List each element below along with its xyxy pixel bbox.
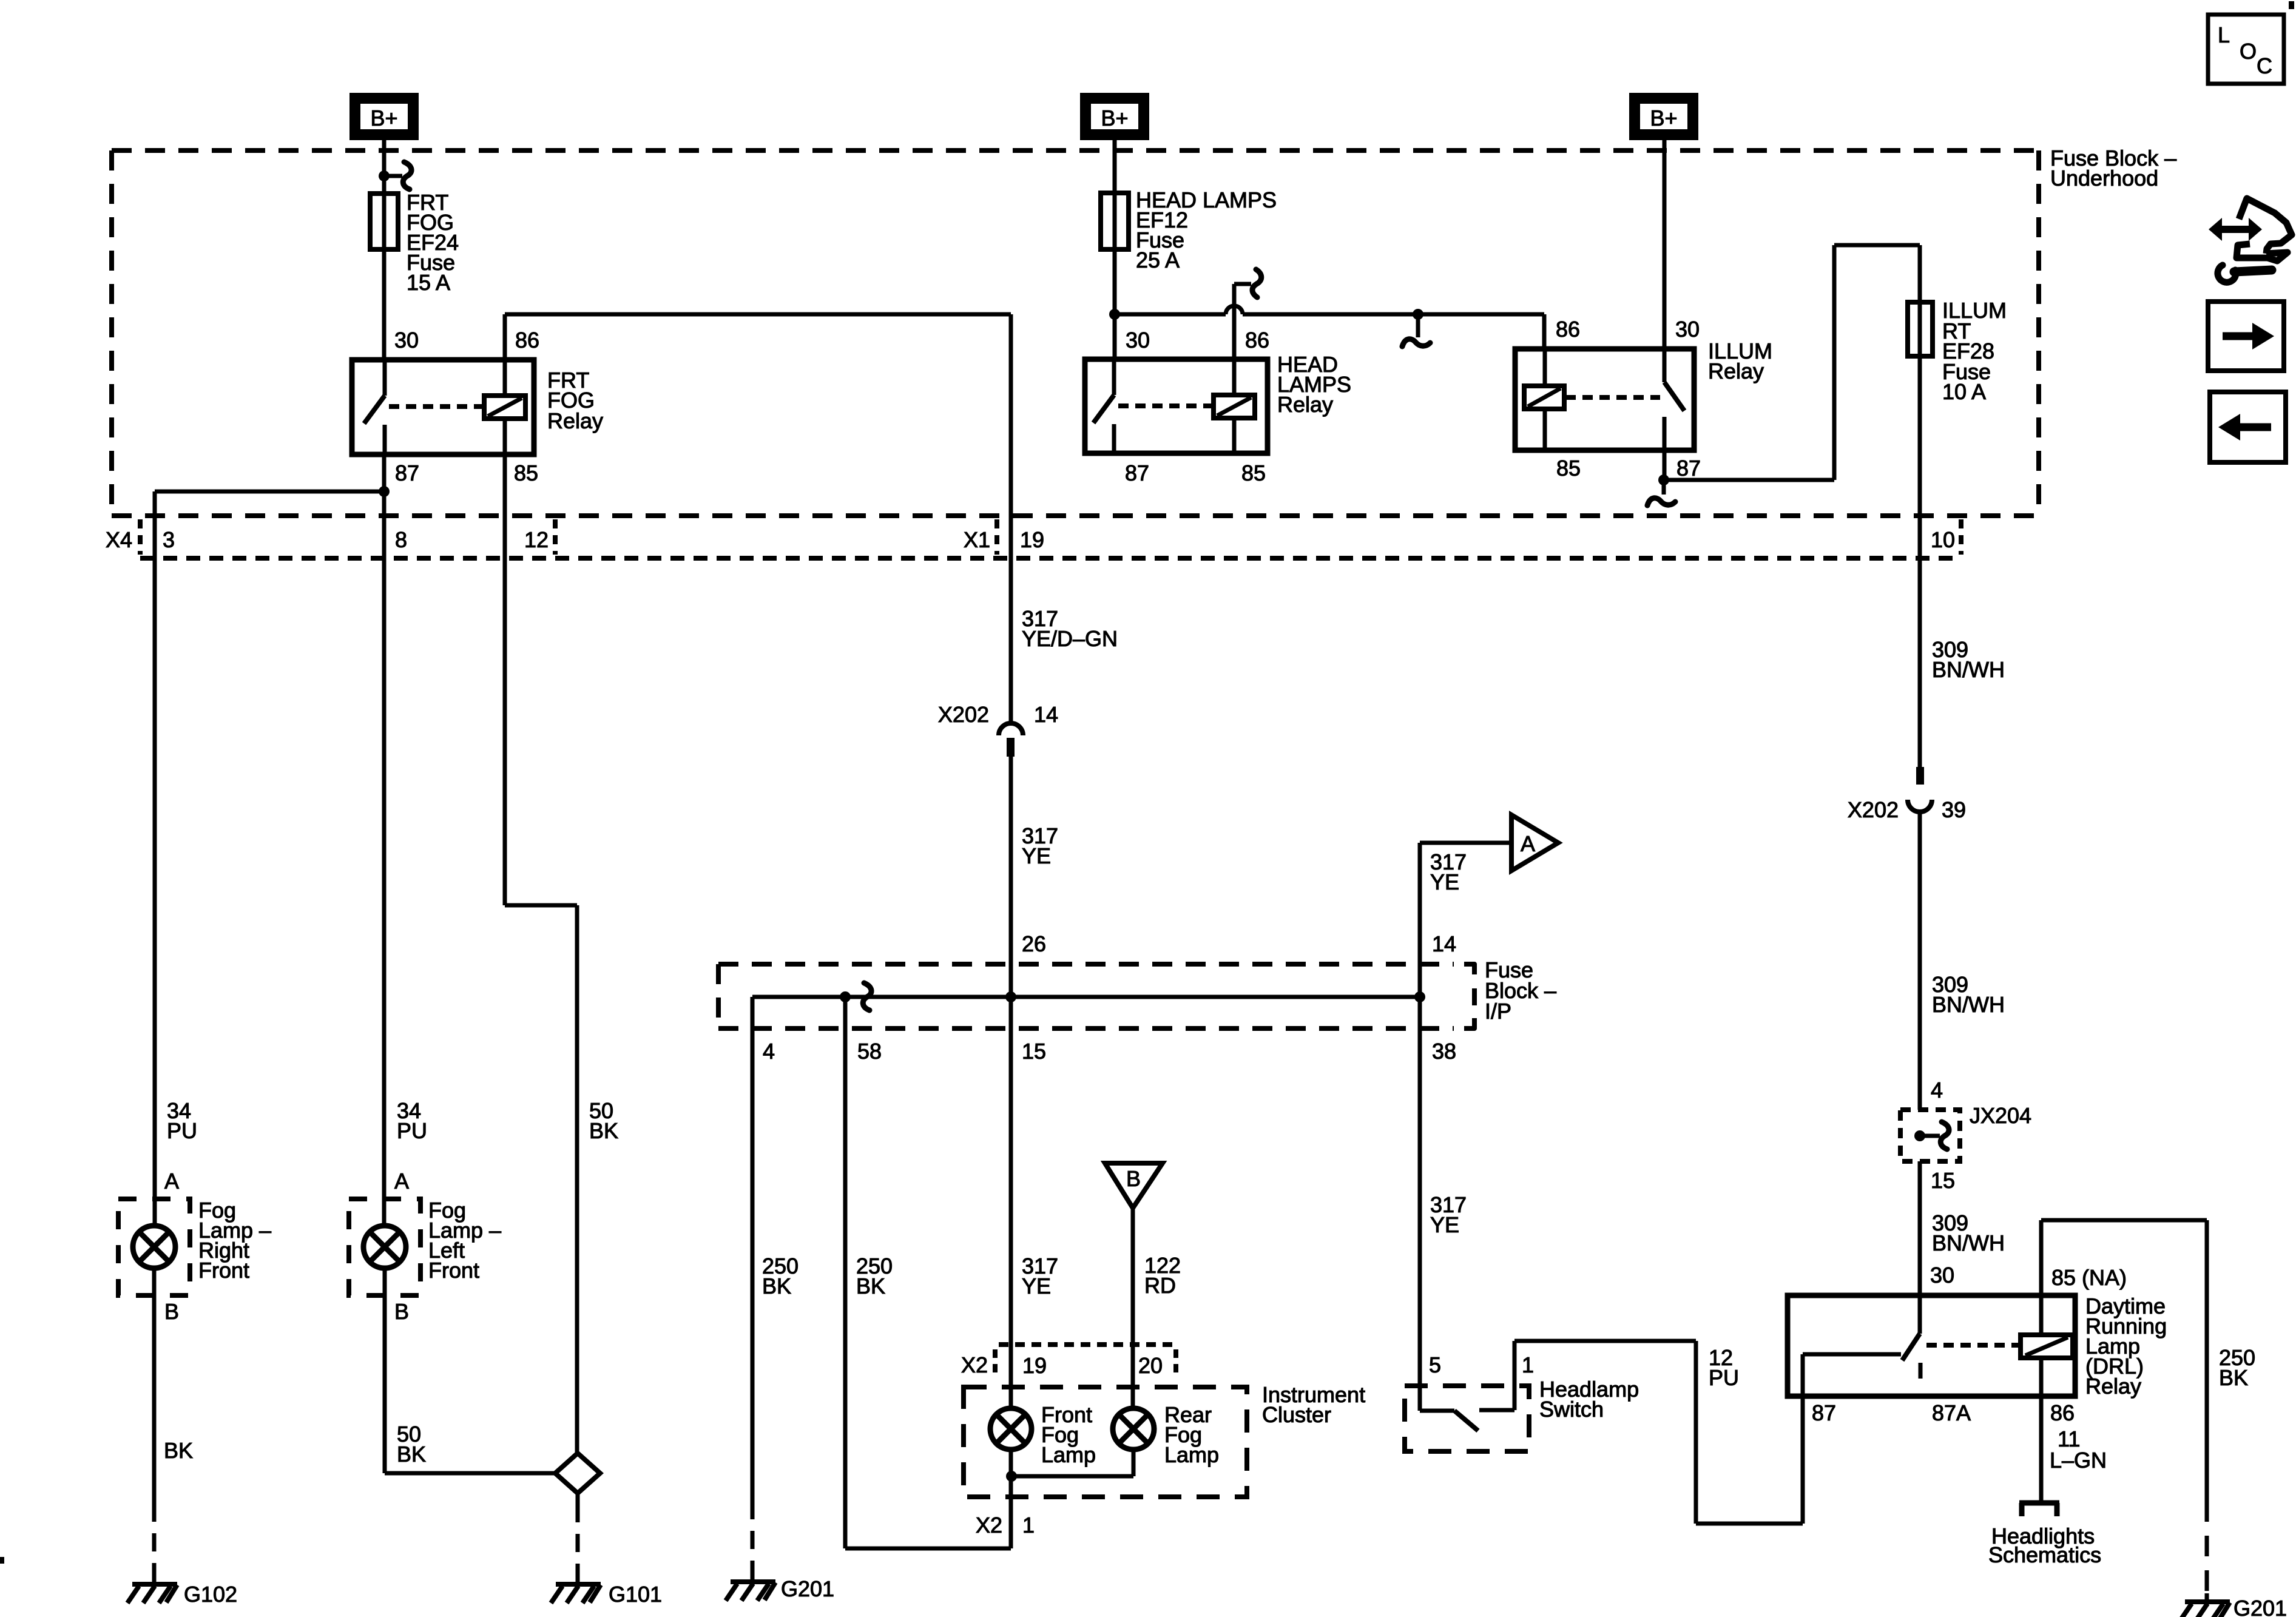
svg-text:58: 58 [857, 1039, 882, 1064]
wire B+3 to ILLUM relay 30 [1663, 140, 1667, 349]
svg-text:BK: BK [164, 1438, 193, 1463]
fog lamp right front bulb [133, 1226, 175, 1268]
arrow-right legend box [2208, 302, 2284, 371]
instrument cluster dashed box [964, 1387, 1247, 1497]
svg-text:86: 86 [2050, 1400, 2075, 1425]
battery feed B+ 1 [354, 97, 414, 136]
pin 1 label [1522, 1352, 1534, 1377]
pigtail below bus splice [1402, 314, 1430, 346]
svg-text:Cluster: Cluster [1262, 1402, 1331, 1427]
svg-text:14: 14 [1034, 702, 1058, 727]
page mark top-right [2289, 1, 2294, 9]
svg-text:Front: Front [198, 1258, 249, 1283]
rear fog lamp label [1164, 1402, 1219, 1467]
svg-text:I/P: I/P [1485, 999, 1511, 1024]
svg-text:85: 85 [1241, 461, 1266, 485]
svg-text:20: 20 [1138, 1353, 1163, 1378]
fog lamp left front bulb [363, 1226, 406, 1268]
fuse block IP label [1485, 957, 1556, 1024]
pigtail take-off at EF24 [384, 162, 411, 189]
LOC legend box [2208, 15, 2284, 84]
connector X2 row dotted line [999, 1342, 1177, 1347]
wire triangle B to rear fog lamp [1131, 1208, 1135, 1408]
svg-text:PU: PU [397, 1118, 427, 1143]
svg-text:BK: BK [397, 1442, 426, 1467]
relay DRL label [2085, 1294, 2167, 1399]
pin 10 label [1931, 527, 1955, 552]
connector X202-14 labels [938, 702, 1058, 727]
connector X2 bracket dashes [995, 1349, 1176, 1377]
relay FRT FOG pin labels [394, 328, 539, 485]
relay ILLUM label [1708, 339, 1772, 383]
svg-text:15: 15 [1022, 1039, 1046, 1064]
relay DRL box [1788, 1295, 2075, 1396]
svg-text:86: 86 [515, 328, 539, 353]
pin 5 label [1429, 1352, 1441, 1377]
junction JX204 splice [1914, 1130, 1925, 1141]
svg-text:Lamp: Lamp [1164, 1442, 1219, 1467]
pin 8 label [395, 527, 407, 552]
svg-text:38: 38 [1432, 1039, 1456, 1064]
svg-text:25 A: 25 A [1136, 248, 1180, 272]
pin A label left-front [394, 1169, 409, 1193]
wire to right front fog lamp [155, 491, 384, 1226]
svg-text:30: 30 [394, 328, 419, 353]
pin 26 label [1022, 931, 1046, 956]
fuse EF12 HEAD LAMPS 25A [1101, 193, 1129, 249]
svg-text:A: A [394, 1169, 409, 1193]
label 250 BK right [2219, 1345, 2255, 1390]
relay HEAD LAMPS switch [1093, 359, 1114, 453]
wire JX204 to DRL relay 30 [1918, 1161, 1922, 1295]
label 34 PU left-front [397, 1098, 427, 1143]
svg-text:X202: X202 [938, 702, 989, 727]
svg-text:Relay: Relay [547, 408, 603, 433]
junction EF12 bus [1109, 309, 1120, 320]
svg-text:B: B [394, 1299, 409, 1324]
relay DRL coil [2021, 1335, 2073, 1358]
svg-text:X2: X2 [961, 1352, 988, 1377]
relay DRL actuating link [1926, 1343, 2019, 1348]
wire to triangle A [1420, 841, 1511, 845]
svg-text:30: 30 [1675, 317, 1700, 342]
relay ILLUM actuating link [1565, 395, 1660, 400]
relay FRT FOG label [547, 368, 603, 433]
svg-text:PU: PU [167, 1118, 197, 1143]
svg-text:BK: BK [762, 1274, 791, 1298]
splice junction at EF24 [379, 170, 390, 181]
pin 3 label [163, 527, 175, 552]
ground G102 label [184, 1582, 237, 1607]
relay HEAD LAMPS coil [1214, 395, 1255, 418]
wire X202-39 to JX204 [1918, 812, 1922, 1110]
svg-text:26: 26 [1022, 931, 1046, 956]
svg-text:15: 15 [1931, 1168, 1955, 1193]
junction IP bus at 38 [1414, 991, 1425, 1002]
fuse EF28 label [1942, 298, 2007, 404]
junction IP bus at 58 [840, 991, 851, 1002]
pin 38 label [1432, 1039, 1456, 1064]
svg-text:B+: B+ [1101, 106, 1128, 130]
relay FRT FOG coil [484, 396, 525, 419]
label 317 YE (pin 14) [1430, 849, 1467, 894]
wire ILLUM 87 to EF28 fuse [1664, 245, 1920, 480]
ground G201 right [2180, 1593, 2230, 1617]
headlamp switch contacts [1420, 1410, 1514, 1431]
off-page bracket headlights [2019, 1503, 2059, 1516]
svg-text:19: 19 [1020, 527, 1044, 552]
svg-text:Relay: Relay [1708, 359, 1764, 383]
svg-text:A: A [164, 1169, 179, 1193]
label 309 BN/WH middle [1932, 972, 2005, 1017]
svg-text:G201: G201 [2234, 1596, 2287, 1617]
svg-text:BK: BK [2219, 1365, 2248, 1390]
wire pin58 250 BK to X2-1 [845, 997, 1011, 1548]
label 250 BK first [762, 1254, 799, 1298]
relay HEAD LAMPS pin labels [1125, 328, 1269, 485]
connector X4 label [106, 527, 132, 552]
wire FRT FOG 85 to 50 BK [505, 454, 577, 1453]
junction ILLUM 87 splice [1658, 474, 1669, 485]
wire diamond to G101 [576, 1493, 580, 1578]
label 317 YE (upper) [1022, 823, 1058, 868]
svg-text:BK: BK [589, 1118, 618, 1143]
ground G102 [127, 1576, 177, 1603]
svg-text:12: 12 [524, 527, 549, 552]
wire pin38 to headlamp switch 5 [1418, 843, 1422, 1411]
svg-text:L–GN: L–GN [2050, 1448, 2107, 1473]
relay ILLUM coil wires [1543, 349, 1547, 450]
pin 19 label (X2) [1022, 1353, 1047, 1378]
svg-text:B+: B+ [1650, 106, 1677, 130]
fuse block underhood label [2050, 146, 2176, 191]
junction bus splice [1413, 309, 1423, 320]
svg-text:BK: BK [856, 1274, 885, 1298]
headlamp switch box [1405, 1386, 1529, 1451]
ground G101 [551, 1576, 601, 1603]
svg-text:YE: YE [1430, 1212, 1459, 1237]
svg-text:Relay: Relay [2085, 1374, 2141, 1399]
pin 12 label [524, 527, 549, 552]
connector X2 label [961, 1352, 988, 1377]
relay FRT FOG coil wires [503, 360, 507, 454]
fuse block underhood dashed border [112, 150, 2039, 516]
svg-text:4: 4 [1931, 1078, 1943, 1102]
svg-text:RD: RD [1144, 1273, 1176, 1298]
relay HEAD LAMPS box [1085, 359, 1268, 453]
svg-text:X1: X1 [964, 527, 990, 552]
off-page triangle A [1511, 815, 1558, 871]
svg-text:YE: YE [1430, 869, 1459, 894]
pin 15 label [1931, 1168, 1955, 1193]
svg-text:(NA): (NA) [2082, 1265, 2127, 1290]
ground G101 label [609, 1582, 662, 1607]
svg-text:87: 87 [1676, 456, 1701, 481]
svg-text:19: 19 [1022, 1353, 1047, 1378]
svg-text:86: 86 [1556, 317, 1580, 342]
relay ILLUM box [1515, 349, 1694, 450]
svg-text:Switch: Switch [1539, 1397, 1604, 1422]
label 34 PU right-front [167, 1098, 197, 1143]
wire pin4 250 BK to G201 [751, 1028, 755, 1501]
wire rear fog to junction [1011, 1450, 1133, 1476]
fuse EF12 label [1136, 187, 1277, 272]
splice diamond S-connector [555, 1453, 600, 1493]
fuse EF24 FRT FOG 15A [370, 194, 398, 249]
wire X202-14 to IP bus [1009, 757, 1013, 1408]
pigtail below ILLUM 87 [1647, 480, 1675, 505]
label 309 BN/WH lower [1932, 1210, 2005, 1255]
svg-text:PU: PU [1709, 1365, 1739, 1390]
relay FRT FOG actuating link [389, 404, 483, 409]
pin A label right-front [164, 1169, 179, 1193]
IP internal bus [752, 964, 1420, 1028]
svg-text:Relay: Relay [1277, 392, 1333, 417]
indicator rear fog lamp [1113, 1408, 1154, 1450]
wire B+2 to HEAD LAMPS relay 30 [1113, 140, 1117, 360]
svg-text:B: B [164, 1299, 179, 1324]
dashed wire to G201 left [751, 1501, 755, 1578]
label 11 L-GN [2050, 1426, 2107, 1473]
instrument cluster label [1262, 1382, 1365, 1427]
svg-text:87: 87 [1125, 461, 1149, 485]
off-page triangle B [1105, 1163, 1163, 1208]
svg-text:Schematics: Schematics [1988, 1542, 2101, 1567]
pin 14 label [1432, 931, 1456, 956]
svg-text:87A: 87A [1932, 1400, 1971, 1425]
wire FRT FOG 86 to X1-19 bus [505, 314, 1011, 723]
svg-text:Lamp: Lamp [1041, 1442, 1096, 1467]
svg-text:YE: YE [1022, 1274, 1051, 1298]
connector X202 pin 39 [1908, 767, 1932, 812]
label 50 BK (relay 85 wire) [589, 1098, 618, 1143]
relay ILLUM pin labels [1556, 317, 1701, 481]
label 250 BK second [856, 1254, 893, 1298]
connector row X4/X1 bottom dashed line [140, 556, 1961, 561]
fuse EF28 ILLUM RT 10A [1908, 302, 1933, 356]
wire right front lamp to G102 [152, 1268, 157, 1504]
junction cluster lamps [1006, 1471, 1017, 1482]
fog lamp left front label [428, 1198, 501, 1283]
fog lamp left front dashed box [349, 1199, 420, 1295]
svg-text:4: 4 [763, 1039, 775, 1064]
svg-text:G101: G101 [609, 1582, 662, 1607]
svg-text:85: 85 [514, 461, 538, 485]
relay HEAD LAMPS label [1277, 352, 1351, 417]
svg-text:X2: X2 [976, 1513, 1002, 1538]
pin B label right-front [164, 1299, 179, 1324]
junction IP bus at 15 [1005, 991, 1016, 1002]
wire FRT FOG 87 down [382, 454, 387, 1226]
svg-text:B+: B+ [370, 106, 397, 130]
JX204 label [1970, 1103, 2031, 1128]
svg-text:X202: X202 [1848, 797, 1899, 822]
svg-text:Front: Front [428, 1258, 479, 1283]
svg-text:C: C [2257, 53, 2272, 78]
svg-text:10: 10 [1931, 527, 1955, 552]
relay HEAD LAMPS coil wires [1232, 359, 1237, 453]
wire EF28 to X202-39 [1918, 356, 1922, 767]
fuse block IP dashed border [718, 964, 1474, 1028]
pin 4 label [763, 1039, 775, 1064]
junction 87 splice [379, 486, 390, 497]
pin 58 label [857, 1039, 882, 1064]
pin 20 label (X2) [1138, 1353, 1163, 1378]
connector X1 label [964, 527, 990, 552]
indicator front fog lamp [990, 1408, 1032, 1450]
svg-text:JX204: JX204 [1970, 1103, 2031, 1128]
svg-text:87: 87 [395, 461, 419, 485]
connector bracket dashes [140, 519, 1961, 555]
battery feed B+ 2 [1084, 97, 1145, 136]
label 122 RD [1144, 1253, 1181, 1298]
svg-text:15 A: 15 A [407, 270, 450, 295]
headlights schematics label [1988, 1524, 2101, 1567]
bus to ILLUM relay 86 with hop [1115, 306, 1544, 349]
ground G201 right label [2234, 1596, 2287, 1617]
svg-text:YE: YE [1022, 843, 1051, 868]
dashed wire to G102 [152, 1504, 157, 1578]
wire ILLUM 87 down [1663, 450, 1667, 480]
svg-text:5: 5 [1429, 1352, 1441, 1377]
wire B+1 to FRT FOG relay 30 [382, 140, 387, 360]
svg-text:B: B [1126, 1166, 1141, 1191]
svg-text:1: 1 [1522, 1352, 1534, 1377]
wire DRL 86 to headlights schematics [2039, 1396, 2044, 1501]
pigtail IP bus [845, 983, 871, 1010]
front fog lamp label [1041, 1402, 1096, 1467]
svg-text:14: 14 [1432, 931, 1456, 956]
svg-text:1: 1 [1022, 1513, 1035, 1538]
relay DRL pin labels [1812, 1263, 2127, 1425]
label BK [164, 1438, 193, 1463]
pin 15 label [1022, 1039, 1046, 1064]
svg-text:BN/WH: BN/WH [1932, 1230, 2005, 1255]
wire DRL 85 to 250 BK [2041, 1220, 2207, 1501]
pigtail JX204 [1920, 1122, 1949, 1149]
label 12 PU [1709, 1345, 1739, 1390]
fuse EF24 label [407, 190, 459, 295]
connector X202-39 labels [1848, 797, 1966, 822]
pin B label left-front [394, 1299, 409, 1324]
connector X2-1 labels [976, 1513, 1035, 1538]
relay DRL switch [1902, 1295, 1920, 1379]
junction block JX204 box [1900, 1110, 1960, 1161]
svg-text:YE/D–GN: YE/D–GN [1022, 626, 1118, 651]
fog lamp right front label [198, 1198, 271, 1283]
svg-text:85: 85 [1556, 456, 1581, 481]
svg-text:85: 85 [2051, 1265, 2076, 1290]
svg-text:O: O [2240, 39, 2257, 64]
headlamp switch label [1539, 1377, 1639, 1422]
label 317 YE (pin 15) [1022, 1254, 1058, 1298]
relay HEAD LAMPS actuating link [1118, 403, 1212, 408]
svg-text:3: 3 [163, 527, 175, 552]
dashed wire to G201 right [2205, 1501, 2209, 1596]
wire left front lamp to diamond [385, 1268, 555, 1473]
svg-text:Underhood: Underhood [2050, 166, 2158, 191]
relay FRT FOG box [352, 360, 534, 454]
relay DRL coil wires [2039, 1295, 2044, 1396]
pin 4 label [1931, 1078, 1943, 1102]
svg-text:30: 30 [1930, 1263, 1954, 1288]
svg-text:8: 8 [395, 527, 407, 552]
relay ILLUM switch [1664, 349, 1684, 450]
svg-text:87: 87 [1812, 1400, 1836, 1425]
relay DRL 87 contact [1803, 1354, 1901, 1524]
ground G201 left label [781, 1576, 834, 1601]
svg-text:BN/WH: BN/WH [1932, 992, 2005, 1017]
relay ILLUM coil [1524, 386, 1564, 409]
arrow-left legend box [2210, 392, 2286, 462]
wire 12 PU switch to DRL 87 [1514, 1341, 1803, 1524]
page mark left edge [0, 1557, 4, 1564]
svg-text:A: A [1521, 831, 1535, 856]
svg-text:G102: G102 [184, 1582, 237, 1607]
svg-text:10 A: 10 A [1942, 379, 1986, 404]
ground G201 left [726, 1573, 775, 1601]
svg-text:BN/WH: BN/WH [1932, 657, 2005, 682]
label 317 YE/D-GN [1022, 606, 1118, 651]
battery feed B+ 3 [1633, 97, 1694, 136]
label 309 BN/WH upper [1932, 637, 2005, 682]
fog lamp right front dashed box [118, 1199, 190, 1295]
svg-text:30: 30 [1126, 328, 1150, 353]
svg-text:G201: G201 [781, 1576, 834, 1601]
pin 19 label [1020, 527, 1044, 552]
service icon (hood outline, double arrow, wrench) [2209, 198, 2292, 282]
connector X202 pin 14 [999, 723, 1023, 757]
svg-text:39: 39 [1942, 797, 1966, 822]
relay FRT FOG switch [364, 360, 385, 454]
svg-text:L: L [2218, 22, 2230, 47]
svg-text:86: 86 [1245, 328, 1269, 353]
label 317 YE (pin 38) [1430, 1192, 1467, 1237]
svg-text:X4: X4 [106, 527, 132, 552]
wire HEAD LAMPS 86 take-off [1234, 269, 1261, 359]
label 50 BK left-front [397, 1422, 426, 1467]
